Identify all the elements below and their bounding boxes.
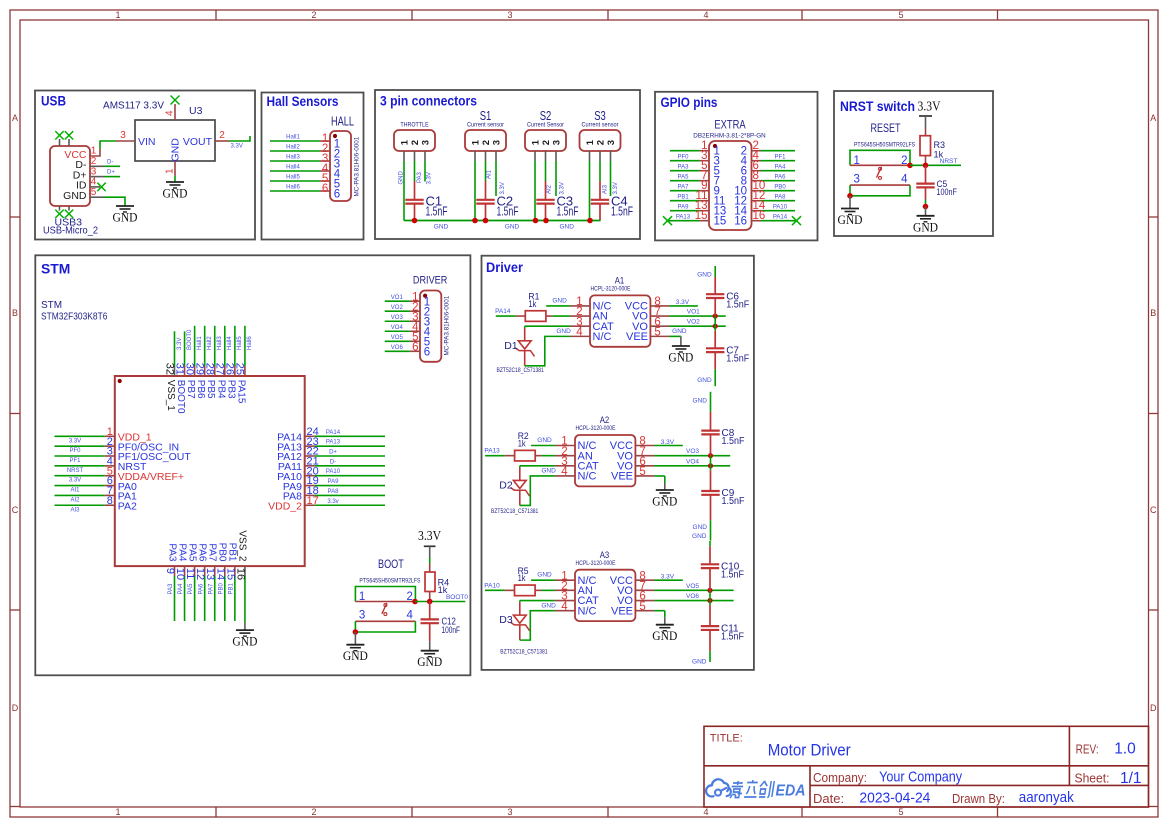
svg-text:15: 15 [714,216,727,228]
svg-text:USB: USB [41,94,66,109]
svg-text:3.3V: 3.3V [661,439,675,446]
svg-text:4: 4 [703,807,708,817]
svg-text:D3: D3 [499,614,513,626]
svg-text:2: 2 [901,155,907,167]
svg-text:3: 3 [491,140,502,145]
svg-text:16: 16 [753,210,766,222]
svg-text:EXTRA: EXTRA [714,118,745,132]
svg-text:1.0: 1.0 [1114,741,1136,758]
svg-text:PB7: PB7 [185,380,196,399]
svg-text:1/1: 1/1 [1120,770,1142,787]
svg-text:VSS_2: VSS_2 [237,530,248,562]
svg-text:PA3: PA3 [166,543,177,562]
svg-text:3.3V: 3.3V [177,338,183,350]
svg-text:GND: GND [652,628,677,643]
svg-text:PA7: PA7 [208,583,214,595]
svg-text:BZT52C18_C571381: BZT52C18_C571381 [500,649,548,656]
svg-text:C: C [12,505,19,515]
svg-text:HALL: HALL [331,115,354,129]
svg-text:GND: GND [417,654,442,669]
svg-text:Driver: Driver [486,260,524,275]
svg-text:PF1: PF1 [69,458,81,464]
svg-text:HCPL-3120-000E: HCPL-3120-000E [576,560,617,567]
svg-text:3.3v: 3.3v [327,499,338,505]
svg-text:3: 3 [551,140,562,145]
svg-text:Hall2: Hall2 [286,145,300,151]
svg-text:GND: GND [537,572,552,579]
svg-text:A3: A3 [600,550,610,560]
svg-text:1: 1 [165,168,176,174]
svg-text:2: 2 [410,140,421,145]
svg-text:D+: D+ [107,170,115,176]
svg-text:VEE: VEE [626,331,648,343]
svg-text:PB4: PB4 [215,380,226,399]
svg-text:VO1: VO1 [391,295,404,301]
svg-text:Current sensor: Current sensor [467,122,505,129]
svg-text:17: 17 [307,495,319,507]
svg-text:3: 3 [120,130,126,141]
svg-text:PTS645SH50SMTR92LFS: PTS645SH50SMTR92LFS [854,142,915,149]
svg-text:MC-PA3.81H06-0001: MC-PA3.81H06-0001 [444,295,451,355]
svg-text:GND: GND [697,377,712,384]
svg-text:GND: GND [559,223,574,230]
svg-text:PF0: PF0 [69,448,81,454]
svg-text:1k: 1k [518,573,526,584]
svg-text:THROTTLE: THROTTLE [400,122,429,129]
svg-text:GND: GND [697,272,712,279]
svg-text:BZT52C18_C571381: BZT52C18_C571381 [497,367,545,374]
svg-text:3: 3 [854,173,860,185]
svg-text:Sheet:: Sheet: [1075,771,1110,786]
svg-text:Hall4: Hall4 [286,165,300,171]
svg-text:1: 1 [854,155,860,167]
svg-text:GND: GND [170,138,182,162]
svg-text:GND: GND [232,634,257,649]
svg-text:HCPL-3120-000E: HCPL-3120-000E [576,425,617,432]
svg-text:16: 16 [734,216,747,228]
svg-text:BZT52C18_C571381: BZT52C18_C571381 [491,508,539,515]
svg-text:PA14: PA14 [773,215,788,221]
svg-text:STM32F303K8T6: STM32F303K8T6 [41,311,108,323]
svg-text:D: D [12,703,19,713]
svg-text:2: 2 [481,140,492,145]
svg-text:3.3V: 3.3V [676,299,690,306]
svg-text:1.5nF: 1.5nF [722,496,745,507]
svg-text:PB3: PB3 [225,380,236,399]
svg-text:1.5nF: 1.5nF [721,570,744,581]
svg-text:GND: GND [838,212,863,227]
svg-text:PB0: PB0 [774,185,786,191]
svg-text:3.3V: 3.3V [427,172,433,184]
svg-text:B: B [12,308,18,318]
svg-text:NRST switch: NRST switch [840,99,915,114]
svg-text:STM: STM [41,300,62,311]
svg-text:Hall3: Hall3 [286,155,300,161]
svg-text:EDA: EDA [776,783,806,800]
svg-text:AI1: AI1 [70,488,80,494]
svg-text:PA9: PA9 [328,479,340,485]
svg-text:Drawn By:: Drawn By: [952,791,1005,806]
svg-text:PA10: PA10 [484,582,500,589]
svg-text:4: 4 [561,601,568,613]
svg-text:Hall2: Hall2 [207,336,213,350]
svg-text:MC-PA3.81H06-0001: MC-PA3.81H06-0001 [353,136,360,196]
svg-text:4: 4 [576,326,583,338]
svg-text:1.5nF: 1.5nF [721,631,744,642]
svg-text:VOUT: VOUT [183,136,213,148]
svg-text:TITLE:: TITLE: [710,733,743,745]
svg-text:HCPL-3120-000E: HCPL-3120-000E [591,286,632,293]
svg-text:D-: D- [330,459,336,465]
svg-text:3.3V: 3.3V [918,100,941,115]
svg-text:VO1: VO1 [687,309,700,316]
svg-text:5: 5 [639,601,645,613]
svg-text:PA14: PA14 [326,430,341,436]
svg-text:PA7: PA7 [678,185,690,191]
svg-text:VIN: VIN [138,136,156,148]
svg-text:GPIO pins: GPIO pins [661,95,718,110]
svg-text:3.3V: 3.3V [231,144,243,150]
svg-text:PF1: PF1 [774,155,786,161]
svg-text:PA7: PA7 [207,543,218,562]
svg-text:Motor Driver: Motor Driver [768,742,851,760]
svg-text:5: 5 [898,10,903,20]
svg-text:PA8: PA8 [775,195,787,201]
svg-text:2: 2 [595,140,606,145]
svg-text:NRST: NRST [940,158,958,165]
svg-text:BOOT0: BOOT0 [175,380,186,414]
svg-text:Your Company: Your Company [879,769,962,786]
svg-text:D1: D1 [504,340,518,352]
svg-text:15: 15 [695,210,708,222]
svg-text:1: 1 [115,807,120,817]
svg-text:GND: GND [113,210,138,225]
svg-text:25: 25 [234,363,246,375]
svg-text:3.3V: 3.3V [418,529,441,544]
svg-text:1.5nF: 1.5nF [557,204,579,219]
svg-text:2: 2 [311,807,316,817]
svg-text:4: 4 [703,10,708,20]
svg-text:4: 4 [165,110,176,116]
svg-text:2023-04-24: 2023-04-24 [859,790,930,807]
svg-text:N/C: N/C [578,605,597,617]
svg-text:5: 5 [91,187,97,198]
svg-text:A: A [1150,113,1156,123]
svg-text:3.3V: 3.3V [559,182,565,194]
svg-text:1: 1 [115,10,120,20]
svg-text:GND: GND [434,223,449,230]
svg-text:VO2: VO2 [391,305,404,311]
svg-text:PA13: PA13 [676,215,691,221]
svg-text:Company:: Company: [813,770,867,785]
svg-text:1.5nF: 1.5nF [497,204,519,219]
svg-text:PA14: PA14 [495,308,511,315]
svg-text:6: 6 [322,183,328,195]
svg-text:VEE: VEE [611,605,633,617]
svg-text:2: 2 [406,591,412,603]
svg-text:U3: U3 [189,105,203,117]
svg-text:3: 3 [606,140,617,145]
svg-text:N/C: N/C [578,471,597,483]
svg-text:AI1: AI1 [487,169,493,179]
svg-text:GND: GND [692,533,707,540]
svg-text:D+: D+ [329,450,337,456]
svg-text:1: 1 [530,139,541,145]
svg-text:PA3: PA3 [417,171,423,183]
svg-text:PB0: PB0 [217,543,228,562]
svg-text:PA15: PA15 [235,380,246,404]
svg-text:100nF: 100nF [937,187,958,198]
svg-text:1k: 1k [528,299,536,310]
svg-text:D-: D- [107,159,113,165]
svg-text:VSS_1: VSS_1 [165,380,176,412]
svg-text:GND: GND [693,398,708,405]
svg-text:aaronyak: aaronyak [1019,789,1074,806]
svg-text:Hall6: Hall6 [247,336,253,350]
svg-text:VDD_2: VDD_2 [268,500,302,512]
svg-text:GND: GND [343,648,368,663]
svg-text:3.3V: 3.3V [69,438,81,444]
svg-text:A1: A1 [615,276,625,286]
svg-text:100nF: 100nF [442,625,461,635]
svg-text:PA4: PA4 [775,165,787,171]
svg-text:VO6: VO6 [686,593,699,600]
svg-text:16: 16 [234,568,246,580]
svg-text:2: 2 [541,140,552,145]
svg-text:PA6: PA6 [198,583,204,595]
svg-text:PB0: PB0 [218,582,224,594]
svg-text:GND: GND [399,171,405,185]
svg-text:VO5: VO5 [391,335,404,341]
svg-text:Current sensor: Current sensor [582,122,620,129]
svg-text:PA2: PA2 [118,500,137,512]
svg-text:PB6: PB6 [195,380,206,399]
svg-text:Hall1: Hall1 [286,135,300,141]
svg-text:AI3: AI3 [602,184,608,194]
svg-text:3: 3 [507,10,512,20]
svg-text:3: 3 [420,140,431,145]
svg-text:1k: 1k [518,438,526,449]
svg-text:PA5: PA5 [188,583,194,595]
svg-text:GND: GND [163,186,188,201]
svg-text:Hall4: Hall4 [227,336,233,350]
svg-text:3: 3 [507,807,512,817]
svg-text:A: A [12,113,18,123]
svg-text:D: D [1150,703,1157,713]
svg-text:3: 3 [359,610,365,622]
svg-text:PA3: PA3 [678,165,690,171]
svg-text:AMS117 3.3V: AMS117 3.3V [103,101,164,112]
svg-text:GND: GND [693,524,708,531]
svg-text:1.5nF: 1.5nF [726,299,749,310]
svg-text:VO4: VO4 [391,325,404,331]
svg-text:GND: GND [63,190,87,202]
svg-text:VO4: VO4 [686,458,699,465]
svg-text:PA13: PA13 [326,440,341,446]
svg-text:PA3: PA3 [168,583,174,595]
svg-text:3.3V: 3.3V [613,182,619,194]
svg-text:1.5nF: 1.5nF [726,354,749,365]
svg-text:GND: GND [505,223,520,230]
svg-text:GND: GND [672,328,687,335]
svg-text:VO3: VO3 [686,448,699,455]
svg-text:4: 4 [561,466,568,478]
svg-text:Hall6: Hall6 [286,185,300,191]
svg-text:4: 4 [901,173,908,185]
svg-text:PA9: PA9 [678,205,690,211]
svg-text:GND: GND [541,602,556,609]
svg-text:2: 2 [219,130,225,141]
svg-text:4: 4 [406,610,413,622]
svg-text:6: 6 [424,347,430,359]
svg-text:1: 1 [470,139,481,145]
svg-text:Hall1: Hall1 [197,336,203,350]
svg-text:N/C: N/C [593,331,612,343]
svg-text:BOOT: BOOT [378,557,404,571]
svg-text:PA5: PA5 [186,543,197,562]
svg-text:1: 1 [399,139,410,145]
svg-text:RESET: RESET [871,121,901,135]
svg-text:STM: STM [41,262,70,277]
svg-text:B: B [1150,308,1156,318]
svg-text:Hall5: Hall5 [237,336,243,350]
svg-text:D2: D2 [499,479,513,491]
svg-text:1.5nF: 1.5nF [611,204,633,219]
svg-text:VO3: VO3 [391,315,404,321]
svg-text:PA8: PA8 [328,489,340,495]
svg-text:DRIVER: DRIVER [413,275,447,287]
svg-text:VO6: VO6 [391,345,404,351]
svg-text:1.5nF: 1.5nF [426,204,448,219]
svg-text:VEE: VEE [611,471,633,483]
svg-text:BOOT0: BOOT0 [446,594,468,601]
svg-text:PA5: PA5 [678,175,690,181]
svg-text:PA6: PA6 [775,175,787,181]
svg-text:GND: GND [541,468,556,475]
svg-text:BOOT0: BOOT0 [187,329,193,350]
svg-text:PF0: PF0 [677,155,689,161]
svg-text:5: 5 [898,807,903,817]
svg-text:3.3V: 3.3V [69,478,81,484]
svg-text:PA10: PA10 [326,469,341,475]
svg-text:PB1: PB1 [677,195,689,201]
svg-text:GND: GND [913,219,938,234]
svg-text:GND: GND [668,349,693,364]
svg-text:5: 5 [654,326,660,338]
svg-text:AI2: AI2 [547,184,553,194]
svg-text:DB2ERHM-3.81-2*8P-GN: DB2ERHM-3.81-2*8P-GN [693,133,766,140]
svg-text:6: 6 [412,342,418,354]
svg-text:PB1: PB1 [228,582,234,594]
svg-text:Date:: Date: [813,791,844,806]
svg-text:1: 1 [359,591,365,603]
svg-text:REV:: REV: [1076,742,1099,757]
svg-text:AI2: AI2 [70,497,80,503]
svg-text:3.3V: 3.3V [500,182,506,194]
svg-text:5: 5 [639,466,645,478]
svg-text:PB5: PB5 [205,380,216,399]
svg-text:GND: GND [537,437,552,444]
svg-text:C: C [1150,505,1157,515]
svg-text:Current Sensor: Current Sensor [527,122,565,129]
svg-text:GND: GND [652,493,677,508]
svg-text:PA13: PA13 [484,448,500,455]
svg-text:AI3: AI3 [70,507,80,513]
svg-text:PA4: PA4 [176,543,187,562]
svg-text:GND: GND [552,297,567,304]
svg-text:PA4: PA4 [178,583,184,595]
svg-text:3.3V: 3.3V [661,574,675,581]
svg-text:NRST: NRST [67,468,84,474]
svg-text:2: 2 [311,10,316,20]
svg-text:GND: GND [692,659,707,666]
svg-text:Hall3: Hall3 [217,336,223,350]
svg-text:Hall5: Hall5 [286,175,300,181]
svg-text:VO5: VO5 [686,583,699,590]
svg-text:8: 8 [107,495,113,507]
svg-text:A2: A2 [600,415,610,425]
svg-text:PTS645SH50SMTR92LFS: PTS645SH50SMTR92LFS [359,578,420,585]
svg-text:3 pin connectors: 3 pin connectors [380,94,477,109]
svg-text:PA6: PA6 [196,543,207,562]
svg-text:1: 1 [585,139,596,145]
svg-text:VO2: VO2 [687,319,700,326]
svg-text:USB-Micro_2: USB-Micro_2 [43,225,98,237]
svg-text:PA10: PA10 [773,205,788,211]
svg-text:GND: GND [556,328,571,335]
svg-text:Hall Sensors: Hall Sensors [267,94,339,109]
svg-text:6: 6 [334,189,340,201]
svg-text:1.5nF: 1.5nF [722,436,745,447]
svg-text:PB1: PB1 [227,543,238,562]
